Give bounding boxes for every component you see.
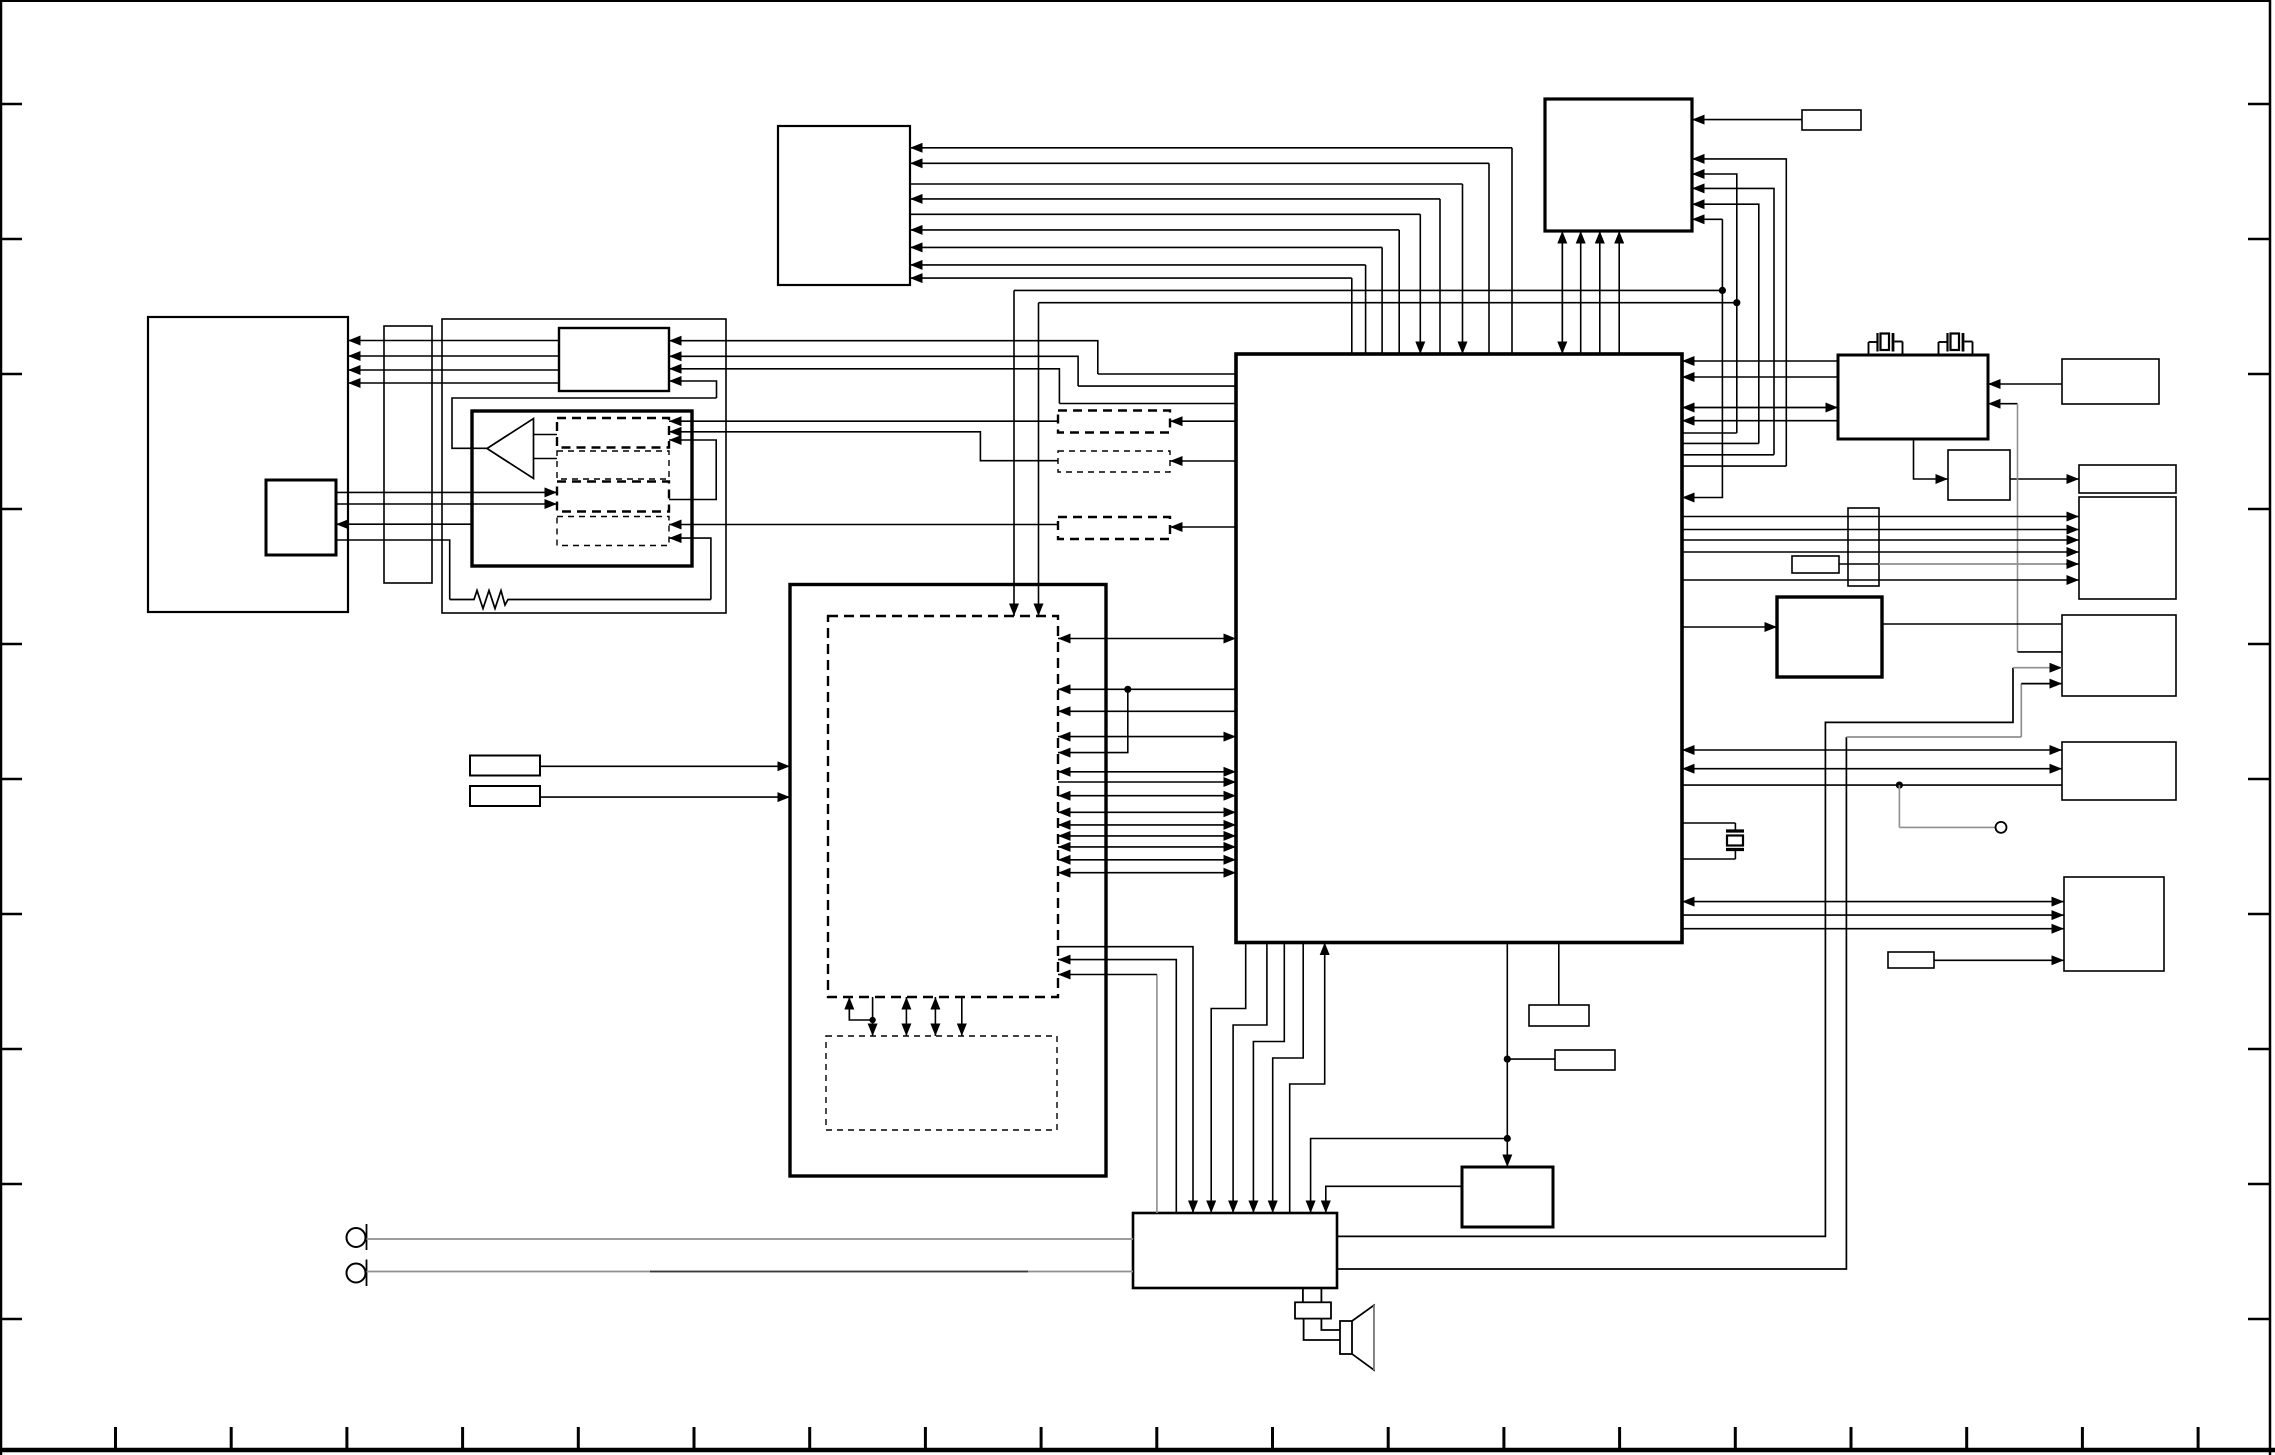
wire IC-box4 c	[1682, 928, 2064, 930]
wire dsp-mem w1	[849, 997, 872, 1020]
wire bus B3	[1682, 454, 1774, 456]
wire amp input net	[669, 381, 717, 398]
left ruler ticks	[0, 104, 22, 1319]
wire tuner line L5	[910, 214, 1420, 354]
wire amp feedback loop	[669, 440, 716, 500]
thin outer box (video module)	[442, 319, 726, 613]
op-amp output stub 1	[534, 434, 558, 436]
wire IC-box3 a	[1682, 749, 1900, 751]
wire u3 (gray)	[1156, 975, 1158, 1214]
right ruler ticks	[2248, 104, 2270, 1319]
op-amp triangle	[487, 419, 534, 479]
wire left bus 2	[348, 355, 559, 357]
wire square to C 2	[336, 503, 557, 505]
wire flash to box2	[1882, 623, 2062, 625]
wire L1 to DSP	[540, 765, 790, 767]
block box2 (right col)	[2062, 615, 2176, 696]
wire u1	[1058, 947, 1193, 1213]
connector circle J2	[347, 1264, 366, 1283]
connector strip CN1	[384, 326, 432, 583]
connector circle J1	[347, 1228, 366, 1247]
wire u5	[1233, 943, 1267, 1214]
main IC U1 (large center)	[1236, 354, 1682, 943]
small box L1 (left label)	[470, 756, 540, 776]
wire DSP-IC y835.9	[1058, 835, 1147, 837]
wire u2	[1058, 960, 1176, 1213]
block boxA (right of SDRAM)	[2062, 359, 2159, 404]
wire tuner line L2	[910, 163, 1489, 354]
wire bus B1	[1682, 465, 1786, 467]
op-amp output stub 2	[534, 458, 558, 460]
wire resistor to D	[669, 538, 711, 599]
bottom ruler ticks	[116, 1427, 2199, 1450]
wire link V2	[1580, 231, 1582, 354]
wire tuner line L9	[910, 278, 1352, 354]
wire link V4	[1618, 231, 1620, 354]
wire bus B4	[1682, 442, 1759, 444]
wire IC-box3 c with gray tap	[1682, 784, 2062, 786]
block small square Q1	[266, 480, 336, 555]
wire left bus 4	[348, 382, 559, 384]
wire pill3 right arrow	[1170, 526, 1236, 528]
block audio amp (bottom)	[1133, 1213, 1337, 1288]
wire reg to amp	[1326, 1186, 1462, 1213]
wire IC bus to tall box 4	[1682, 551, 2079, 553]
wire left bus 1	[348, 340, 559, 342]
block tuner (top-left)	[778, 126, 910, 285]
wire DSP-IC y771.8	[1058, 771, 1147, 773]
wire bus B2	[1682, 432, 1737, 434]
wire u9 elbow to amp	[1311, 1139, 1508, 1214]
wire bus B5	[1692, 218, 1722, 220]
amp box U3 (thick)	[472, 411, 692, 566]
small label box (value)	[1792, 556, 1839, 573]
wire stair st3	[1059, 403, 1236, 405]
terminal open circle	[1996, 822, 2007, 833]
speaker SP1	[1340, 1321, 1352, 1354]
wire B3-box4	[1934, 959, 2064, 961]
wire IC to flash box	[1682, 626, 1777, 628]
border frame bottom	[0, 1448, 2275, 1453]
wire dsp-mem w4	[961, 997, 963, 1036]
block memory U2 (top-right)	[1545, 99, 1692, 231]
wire u7	[1273, 943, 1304, 1214]
block rect1 (video sw)	[559, 328, 669, 391]
wire IC bus to tall box 1	[1682, 516, 2079, 518]
wire J2 to amp (gray)	[367, 1271, 1134, 1273]
connector strip CN2 (right)	[1848, 508, 1879, 586]
wire DSP-IC y736.6	[1058, 736, 1147, 738]
wire DSP-IC y812.3	[1058, 811, 1147, 813]
wire gray elbow SDRAM-box2	[1988, 403, 2018, 405]
block short box (right col)	[2079, 465, 2176, 493]
wire square to C 1	[336, 491, 557, 493]
wire SDRAM to reg box	[1914, 439, 1949, 479]
wire left bus 3	[348, 369, 559, 371]
wire IC bus to tall box 2	[1682, 529, 2079, 531]
wire tuner line L1	[910, 148, 1512, 354]
border frame right	[2269, 0, 2272, 1455]
wire net2 amp-box2 (gray)	[1337, 737, 1846, 1269]
wire filter to speaker 2	[1321, 1319, 1340, 1330]
block box3 (right col)	[2062, 742, 2176, 800]
wire IC-SDRAM S4	[1682, 420, 1838, 422]
crystal X1 on IC edge	[1682, 823, 1744, 859]
lower dashed block (mem)	[826, 1036, 1057, 1130]
wire DSP-IC y689.3	[1058, 688, 1236, 690]
big dashed block (DSP core)	[828, 616, 1058, 997]
wire IC-box3 b	[1682, 768, 1900, 770]
dashed block C (in amp)	[557, 482, 669, 512]
wire DSP-IC y782	[1058, 781, 1236, 783]
wire u9 vertical with dots	[1506, 943, 1508, 1168]
small box B2 (below IC)	[1555, 1050, 1615, 1070]
border frame left	[0, 0, 2, 1455]
wire IC to B1	[1558, 943, 1560, 1006]
small box B1 (below IC)	[1529, 1005, 1589, 1026]
block CRT/panel (left tall)	[148, 317, 348, 612]
dashed block A (in amp)	[557, 418, 669, 448]
wire net P1 (to DSP)	[1014, 287, 1726, 616]
wire tuner line L4	[910, 199, 1440, 354]
block tall box (right col)	[2079, 497, 2176, 599]
resistor R2 zigzag	[450, 591, 711, 609]
wire pill2 right arrow	[1170, 460, 1236, 462]
wire DSP-IC y872.7	[1058, 872, 1147, 874]
dashed pill 2	[1058, 451, 1170, 472]
wire IC-SDRAM S1	[1682, 360, 1838, 362]
wire DSP-IC y846.9	[1058, 846, 1147, 848]
wire dsp-mem w3	[934, 997, 936, 1016]
wire tuner line L3	[910, 184, 1463, 354]
crystal Y1 above SDRAM	[1869, 333, 1903, 356]
wire DSP-IC y638.5	[1058, 638, 1147, 640]
wire DSP-IC y824.9	[1058, 824, 1147, 826]
wire gray label line	[1839, 563, 1879, 565]
wire amp to filter stub1	[1302, 1288, 1304, 1302]
wire net1 amp-box2	[1337, 668, 2013, 1237]
wire IC bus to tall box 5	[1682, 579, 2079, 581]
wire DSP-IC y795.7	[1058, 795, 1147, 797]
wire u8	[1290, 943, 1325, 1214]
wire pill1 right arrow	[1170, 420, 1236, 422]
block SDRAM U4	[1838, 355, 1988, 439]
wire net P2 (to DSP)	[1039, 299, 1741, 616]
wire L2 to DSP	[540, 796, 790, 798]
wire DSP-IC y711.3	[1058, 710, 1236, 712]
small box B3 (right value)	[1888, 952, 1934, 968]
wire filter to speaker 1	[1304, 1319, 1340, 1340]
wire u4	[1211, 943, 1246, 1214]
dashed pill 3	[1058, 517, 1170, 539]
wire pill1 left	[669, 420, 1058, 422]
wire dsp-mem w2	[905, 997, 907, 1016]
wire R1 to U2	[1692, 119, 1802, 121]
wire DSP-IC y859.8	[1058, 859, 1147, 861]
crystal Y2 above SDRAM	[1939, 333, 1973, 356]
middle outer box (DSP module)	[790, 585, 1106, 1177]
wire IC-SDRAM S3	[1682, 407, 1838, 409]
wire IC bus to tall box 3	[1682, 539, 2079, 541]
wire stair st1	[1098, 373, 1236, 375]
wire boxA-SDRAM	[1988, 383, 2062, 385]
wire IC-box4 a	[1682, 901, 1905, 903]
wire pill3 left	[669, 524, 1058, 526]
block reg (bottom thick)	[1462, 1167, 1553, 1227]
border frame top	[0, 0, 2271, 2]
wire u6	[1253, 943, 1284, 1214]
wire tuner line L6	[910, 230, 1399, 354]
wire link V1 (bidir)	[1561, 231, 1563, 354]
small box R1 (top-right value)	[1802, 110, 1861, 130]
dashed block B (in amp)	[557, 451, 669, 479]
wire pill2 left net	[669, 432, 1058, 461]
filter box FB1	[1295, 1302, 1331, 1318]
wire J1 to amp (gray)	[367, 1238, 1134, 1240]
wire IC-box4 b	[1682, 914, 2064, 916]
wire amp to filter stub2	[1320, 1288, 1322, 1302]
small box L2 (left label)	[470, 786, 540, 806]
wire tuner line L8	[910, 265, 1366, 354]
wire reg box to short box	[2010, 478, 2079, 480]
wire amp to square	[336, 523, 472, 525]
wire link V3	[1599, 231, 1601, 354]
dashed pill 1	[1058, 411, 1170, 433]
wire stair st2	[1078, 385, 1236, 387]
wire IC-SDRAM S2	[1682, 376, 1838, 378]
block box4 (bottom right)	[2064, 877, 2164, 971]
wire resistor net	[336, 540, 450, 600]
dashed block D (in amp)	[557, 517, 669, 546]
block regulator (below SDRAM)	[1948, 450, 2010, 500]
thick box U5 (flash)	[1777, 597, 1882, 677]
wire tuner line L7	[910, 247, 1382, 354]
wire u9 to B2	[1507, 1058, 1555, 1060]
